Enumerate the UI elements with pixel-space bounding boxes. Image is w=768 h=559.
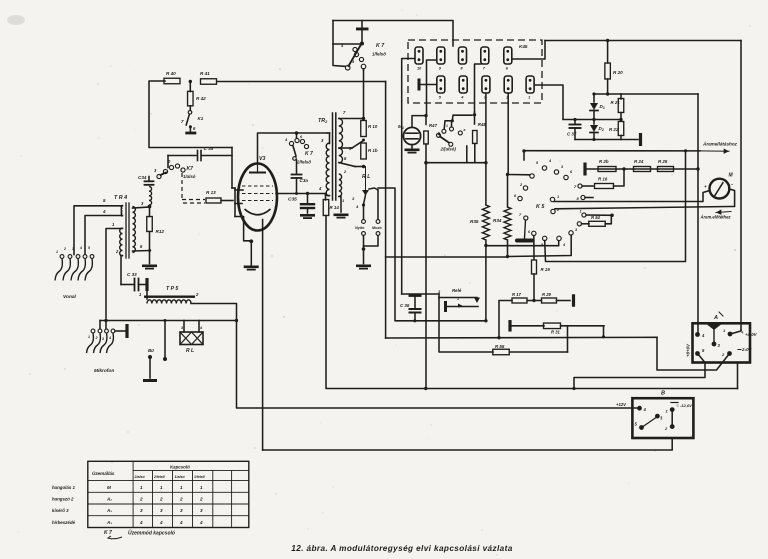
label RL <box>186 348 194 354</box>
node contact2 bus <box>506 173 509 176</box>
svg-text:K1: K1 <box>198 116 204 121</box>
wire TR4 pin5 to line connector <box>74 198 123 255</box>
svg-text:1: 1 <box>580 210 582 214</box>
wire mic node left <box>412 116 426 127</box>
wire R14 down to bus <box>326 216 738 389</box>
svg-text:+: + <box>704 184 707 189</box>
svg-text:kísérő 3: kísérő 3 <box>52 508 69 513</box>
svg-text:1: 1 <box>140 485 143 490</box>
rotary K5 wiper ground <box>515 216 534 243</box>
relay RL contact nyito <box>355 195 366 249</box>
node grid C35 <box>306 192 309 195</box>
wires RL box pins <box>181 321 203 333</box>
node R10 R11 <box>362 139 365 142</box>
resistor R17 <box>512 292 534 303</box>
svg-text:R 21: R 21 <box>611 100 621 105</box>
tube V3 cathode <box>245 209 271 215</box>
wire right edge drop <box>740 41 742 331</box>
svg-text:hírbeszédé: hírbeszédé <box>52 520 75 525</box>
resistor R42 <box>188 82 207 106</box>
wire plate bus <box>592 92 698 95</box>
node R34 bottom <box>506 255 509 258</box>
svg-text:3: 3 <box>200 508 203 513</box>
transformer TR2 core <box>333 113 336 200</box>
wire R34 node to K5 <box>508 235 572 256</box>
svg-text:K7: K7 <box>187 166 194 172</box>
wire top bus right <box>545 40 741 42</box>
wire contact5 down <box>485 93 487 163</box>
resistor R40 <box>164 71 180 84</box>
wire K5 to aramellatas <box>524 150 700 152</box>
resistor R14 <box>323 200 339 216</box>
svg-text:2/felső: 2/felső <box>153 475 166 479</box>
svg-text:4: 4 <box>108 336 111 340</box>
svg-text:Üzemmód kapcsoló: Üzemmód kapcsoló <box>128 530 175 537</box>
relay box K45 dashed outline <box>408 40 542 103</box>
wire contact7 down <box>475 64 482 112</box>
svg-text:4: 4 <box>139 520 143 525</box>
node R11 bottom <box>362 165 365 168</box>
svg-text:1: 1 <box>88 335 90 339</box>
relay RL armature <box>362 167 378 196</box>
svg-text:Vonal: Vonal <box>63 294 77 300</box>
svg-text:4: 4 <box>159 520 163 525</box>
svg-text:R 1b: R 1b <box>368 148 378 153</box>
terminal 8 stub <box>577 195 594 201</box>
tube V3 envelope <box>238 164 277 231</box>
node mic bus x106 <box>104 319 107 322</box>
relay contact 9 <box>437 47 445 71</box>
wire contact1 right <box>535 85 564 119</box>
boxB pin3 <box>655 414 663 421</box>
wire TR4 lower primary top <box>106 222 123 318</box>
wire R13 to tube <box>221 200 233 202</box>
svg-text:R34: R34 <box>493 218 502 223</box>
transformer TR4 secondary winding <box>133 207 136 253</box>
svg-text:2: 2 <box>63 247 66 251</box>
svg-text:1/felső: 1/felső <box>372 52 386 57</box>
svg-text:2: 2 <box>159 497 163 502</box>
svg-text:2: 2 <box>199 497 203 502</box>
node mic bus x165 <box>164 319 167 322</box>
capacitor C34 <box>138 175 154 185</box>
wire TR2 pin1 to ground <box>339 197 341 213</box>
wire boxB pin1 pin2 <box>671 410 673 427</box>
wire mic bus <box>100 320 237 322</box>
transformer TR2 label <box>318 118 327 124</box>
svg-text:Relé: Relé <box>452 288 462 293</box>
capacitor C33 <box>121 272 145 291</box>
svg-text:R 41: R 41 <box>200 71 210 76</box>
node tube-top wire K7-2 <box>295 131 299 135</box>
svg-text:hangolás 1: hangolás 1 <box>52 485 75 490</box>
svg-text:3: 3 <box>140 508 143 513</box>
transformer TP5 label <box>166 286 178 292</box>
ground under RL <box>356 265 371 270</box>
svg-text:R 54: R 54 <box>591 215 601 220</box>
svg-text:R 16: R 16 <box>598 177 608 182</box>
arrow aramellatas <box>700 149 729 154</box>
svg-text:1: 1 <box>200 485 203 490</box>
capacitor C36 <box>292 160 309 194</box>
svg-text:2: 2 <box>95 336 98 340</box>
relay switch Rele <box>438 288 480 312</box>
wire bus x106 drop <box>105 321 107 330</box>
svg-text:1: 1 <box>56 250 58 254</box>
switch K7 2/also <box>437 115 473 151</box>
resistor R31 <box>508 320 604 334</box>
switch K7 4/felso contacts <box>340 43 366 70</box>
wire contact10 left <box>402 59 415 295</box>
transformer TR2 primary winding <box>318 138 330 196</box>
node R35 top <box>484 161 487 164</box>
svg-text:2/felső: 2/felső <box>296 160 311 165</box>
node R35 bottom <box>484 244 487 247</box>
boxA pin5 <box>695 348 705 356</box>
svg-text:T P 5: T P 5 <box>166 286 178 292</box>
node TR4 top junction <box>148 205 152 209</box>
boxA pin4 <box>695 332 705 338</box>
wire R31 right down <box>603 326 605 337</box>
wire switch bottom link <box>426 162 486 164</box>
svg-text:M: M <box>107 485 111 490</box>
wire bus 338 left riser <box>385 257 387 338</box>
svg-text:hangszó 2: hangszó 2 <box>52 497 74 502</box>
svg-text:R 42: R 42 <box>196 96 206 101</box>
switch K7 2/felso <box>284 133 313 165</box>
resistor R23 <box>598 159 616 172</box>
svg-text:Mozó: Mozó <box>372 226 382 230</box>
transformer TR4 label <box>114 195 127 201</box>
svg-text:R 20: R 20 <box>613 70 623 75</box>
wire TR2 primary top <box>327 133 330 144</box>
svg-text:A₁: A₁ <box>106 508 112 513</box>
relay RL contact zaro <box>364 190 380 246</box>
wire boxA pin5 path <box>572 354 705 391</box>
svg-text:1/alsó: 1/alsó <box>175 475 186 479</box>
resistor R13 <box>206 190 221 203</box>
boxA pin2 <box>721 351 732 357</box>
wire cathode to ground <box>235 217 253 266</box>
label V3 <box>259 156 265 162</box>
svg-text:Üzemállás: Üzemállás <box>92 470 115 476</box>
microphone M1 <box>398 124 421 145</box>
svg-text:1: 1 <box>528 96 530 100</box>
resistor R20 <box>605 41 623 95</box>
wire C33 bar to TP5 <box>146 291 148 299</box>
transformer TR2 secondary lower <box>339 169 355 203</box>
wire TP5 right to bus <box>191 304 237 321</box>
relay contact lower 2 <box>504 76 512 100</box>
svg-text:R 25: R 25 <box>658 159 668 164</box>
svg-text:3: 3 <box>102 337 104 341</box>
resistor R11 <box>361 143 378 159</box>
svg-text:3: 3 <box>72 247 74 251</box>
wire R23 row <box>586 168 698 170</box>
wire RL to ground <box>363 249 365 264</box>
svg-text:R 31: R 31 <box>551 330 561 335</box>
terminal stub from bus <box>163 321 167 362</box>
wire TR4 secondary bottom <box>133 244 151 251</box>
node R23 R24 <box>622 167 625 170</box>
node R20 bottom <box>606 92 609 95</box>
svg-text:A₃: A₃ <box>106 520 112 525</box>
svg-text:R 40: R 40 <box>166 71 176 76</box>
wire bus338 to boxA <box>657 337 730 370</box>
svg-text:1/alsó: 1/alsó <box>183 174 196 179</box>
label +12V <box>616 402 627 407</box>
arrow aram elotethez <box>716 209 731 215</box>
wire grid bus <box>276 193 326 195</box>
tube V3 grids <box>242 186 273 201</box>
resistor R16 <box>574 169 624 189</box>
svg-text:R 24: R 24 <box>634 159 644 164</box>
wire RL mozgo to C36 bus <box>378 188 415 321</box>
wire bus 450 <box>263 438 673 450</box>
terminal Bu with ground <box>143 348 157 382</box>
capacitor C35 <box>288 194 314 214</box>
svg-text:K 7: K 7 <box>376 43 385 49</box>
node mic wire <box>424 114 427 117</box>
svg-text:Bü: Bü <box>148 348 154 353</box>
wire K7-4 down to pin7 node <box>363 70 365 119</box>
wire R40 left loop <box>149 81 232 148</box>
svg-text:12. ábra. A modulátoregység el: 12. ábra. A modulátoregység elvi kapcsol… <box>291 544 512 553</box>
resistor R34 <box>493 175 511 257</box>
wire TR4 secondary top to node <box>133 201 150 208</box>
connector Vonal pins <box>55 246 94 281</box>
ground under tube <box>244 266 259 271</box>
node R25 right <box>696 167 699 170</box>
wire contact2 down <box>507 93 510 175</box>
svg-text:R47: R47 <box>429 123 438 128</box>
wire bus388 right end <box>737 363 739 389</box>
label K7 4/felso <box>372 43 386 57</box>
svg-text:R 10: R 10 <box>368 124 378 129</box>
svg-text:R48: R48 <box>478 122 487 127</box>
connector Mikrofon pins <box>87 329 115 353</box>
ground under R12 <box>142 265 157 270</box>
wire heater down long <box>262 220 264 451</box>
wire rele drop <box>439 298 493 353</box>
wire K5 shunt bus <box>555 189 735 209</box>
label -12.6V <box>671 403 692 409</box>
switch K1 <box>181 106 204 132</box>
label K5 <box>536 204 545 210</box>
wire contact9 down <box>426 60 437 116</box>
terminal bar R29 right <box>572 294 575 307</box>
wire R41 to right bus <box>217 81 386 83</box>
svg-text:R 2b: R 2b <box>599 159 609 164</box>
terminal bar right of C33 <box>145 278 148 291</box>
tube V3 left bracket <box>235 188 243 217</box>
wire K5 bus y151 <box>522 149 525 160</box>
wire R31 to bus352 <box>567 326 569 352</box>
label Mikrofon <box>94 368 114 374</box>
wire top bus to dashed box <box>333 21 453 47</box>
wire bus 321 <box>413 319 487 322</box>
wire TR2 primary bottom to grid bus <box>326 194 330 196</box>
svg-text:K45: K45 <box>519 44 528 49</box>
label K45 <box>519 44 528 49</box>
svg-text:4: 4 <box>79 246 82 250</box>
svg-text:C3a: C3a <box>300 178 309 183</box>
boxA pin3 antenna <box>707 325 721 343</box>
terminal bar R23 row <box>583 163 586 176</box>
svg-text:C 36: C 36 <box>400 303 410 308</box>
svg-text:C 33: C 33 <box>127 272 137 277</box>
relay contact 7 <box>481 47 489 71</box>
node junction R40/R41 <box>189 80 192 83</box>
diode D2 <box>590 120 604 140</box>
svg-text:1: 1 <box>557 195 559 199</box>
node diodes bottom <box>592 138 595 141</box>
svg-text:1: 1 <box>457 297 459 301</box>
label Vonal <box>63 294 77 300</box>
node R54 <box>610 214 614 218</box>
wire R17 left down <box>499 301 512 338</box>
svg-text:R 19: R 19 <box>541 267 551 272</box>
transformer TR4 primary upper winding <box>121 206 122 217</box>
resistor R35 <box>470 162 489 246</box>
connector box A <box>693 323 751 362</box>
wire C38 left drop to switch <box>167 156 169 168</box>
resistor R21 <box>611 94 624 118</box>
boxB pin2 <box>664 424 675 431</box>
svg-text:R 29: R 29 <box>542 292 552 297</box>
node RL ground <box>362 247 366 251</box>
label aram elotethez <box>700 215 732 220</box>
label +840V <box>686 343 691 357</box>
node grid K7-2 <box>295 192 298 195</box>
svg-text:2: 2 <box>139 497 143 502</box>
wire K7-4 to TR2 node <box>363 69 365 70</box>
svg-text:R35: R35 <box>470 219 479 224</box>
resistor R47 <box>424 116 438 144</box>
svg-text:R 13: R 13 <box>206 190 216 195</box>
meter M <box>704 173 734 199</box>
svg-text:C34: C34 <box>138 175 147 180</box>
svg-text:1: 1 <box>160 485 163 490</box>
wire TR2 pin6 to node <box>339 163 364 167</box>
svg-text:C 38: C 38 <box>204 146 214 151</box>
wire K5 R54 node <box>580 210 613 218</box>
wire bus 408 <box>237 321 640 409</box>
svg-text:K 7: K 7 <box>305 151 313 157</box>
node bus338 x499 <box>497 336 500 339</box>
label 250V <box>738 347 753 352</box>
capacitor C37 <box>567 118 581 140</box>
wire bus 388 node <box>424 387 427 390</box>
resistor R55 <box>493 344 568 355</box>
label A <box>713 312 723 321</box>
boxA pin3 <box>712 342 721 348</box>
wire contact10 to rele <box>402 294 439 298</box>
dashed link K7 to R13 <box>182 173 205 203</box>
wire y80 bus down <box>386 82 508 258</box>
wire meter bottom bus <box>555 191 710 202</box>
wire plate bus corner down <box>697 94 699 334</box>
svg-text:1: 1 <box>446 124 448 128</box>
tube V3 anode <box>250 164 265 173</box>
wire tube top to TR2 <box>258 133 328 164</box>
relay RL box <box>180 332 203 345</box>
node pin7 R10 <box>362 117 365 120</box>
svg-text:T R 4: T R 4 <box>114 195 127 201</box>
svg-text:2₂0V: 2₂0V <box>741 347 753 352</box>
resistor R24 <box>634 159 651 172</box>
svg-text:+4₂0V: +4₂0V <box>745 332 758 337</box>
svg-text:Áram.előtéthez: Áram.előtéthez <box>700 215 732 220</box>
svg-text:+12V: +12V <box>616 402 627 407</box>
wire R12 to ground <box>148 232 151 264</box>
svg-text:3: 3 <box>160 508 163 513</box>
relay contact 6 <box>504 47 512 71</box>
svg-text:2/(alsó): 2/(alsó) <box>440 147 457 152</box>
relay contact 10 <box>415 47 423 71</box>
svg-text:C 37: C 37 <box>567 132 577 137</box>
boxB pin1 <box>666 407 675 413</box>
wire K5 down bus261 <box>545 149 687 261</box>
rotary switch K5 contacts <box>518 166 573 241</box>
svg-text:−: − <box>731 182 734 187</box>
capacitor C36b <box>400 294 422 321</box>
svg-text:Áramellátáshoz: Áramellátáshoz <box>702 141 738 147</box>
svg-text:+8+0V: +8+0V <box>686 343 691 357</box>
diode D1 <box>590 94 605 118</box>
resistor R54 <box>577 215 611 226</box>
resistor R12 <box>147 207 165 235</box>
node R20 top <box>606 39 609 42</box>
wire diode node link <box>563 119 621 121</box>
svg-text:A: A <box>713 315 718 321</box>
wire diode bottom row <box>575 139 638 141</box>
wire pin5 tap <box>339 141 364 149</box>
table grid <box>88 461 249 527</box>
svg-text:4: 4 <box>199 520 203 525</box>
transformer TP5 core bar <box>144 296 195 298</box>
resistor R48 <box>473 112 487 144</box>
wire C38 row <box>168 155 232 157</box>
svg-text:K 7: K 7 <box>104 530 112 536</box>
caption <box>291 544 512 553</box>
svg-text:R12: R12 <box>156 229 165 234</box>
connector box B <box>632 398 693 438</box>
terminal bar right of mic <box>115 324 129 338</box>
svg-text:3: 3 <box>180 508 183 513</box>
labels nyito zaro <box>355 226 382 230</box>
wire right edge to pin1 <box>730 330 741 334</box>
node K7-4 pivot <box>360 42 364 46</box>
wire R14 column <box>325 194 327 201</box>
capacitor C38 <box>198 146 214 161</box>
svg-text:R 17: R 17 <box>512 292 522 297</box>
wire R35 node down <box>485 246 487 321</box>
relay contact lower 4 <box>459 76 467 100</box>
svg-text:2: 2 <box>179 497 183 502</box>
transformer TR4 core <box>126 203 129 258</box>
svg-text:R 22: R 22 <box>609 127 619 132</box>
transformer TR2 secondary upper <box>339 110 352 163</box>
node bus338 x603 <box>602 335 605 338</box>
svg-text:Nyitó: Nyitó <box>355 226 365 230</box>
relay contact lower 3 <box>482 76 490 100</box>
table header <box>92 464 206 479</box>
transformer TR4 primary lower winding <box>120 228 123 256</box>
node R21 R22 <box>619 118 622 121</box>
label K7 uzemmod kapcsolo <box>104 530 175 540</box>
svg-text:4: 4 <box>102 209 106 214</box>
